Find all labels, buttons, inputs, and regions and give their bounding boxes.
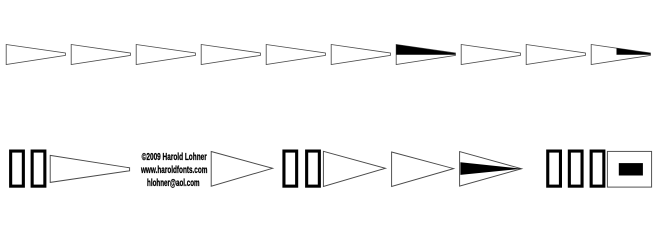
square flag with centered black rectangle <box>607 151 651 187</box>
pennant glyph 8 (outline wedge) <box>461 45 520 65</box>
pennant glyph 4 (outline wedge) <box>201 45 260 65</box>
svg-text:©2009 Harold Lohner: ©2009 Harold Lohner <box>142 152 207 163</box>
triangle flag T1 (outline) <box>211 152 272 187</box>
pennant glyph 5 (outline wedge) <box>266 45 325 65</box>
svg-text:hlohner@aol.com: hlohner@aol.com <box>147 178 200 189</box>
rectangle glyph F <box>568 150 584 188</box>
large pennant glyph <box>50 155 129 182</box>
pennant glyph 2 (outline wedge) <box>71 45 130 65</box>
pennant glyph 1 (outline wedge) <box>6 45 65 65</box>
triangle flag T2 (outline) <box>323 151 385 186</box>
rectangle glyph E <box>546 150 562 188</box>
pennant glyph 9 (outline wedge) <box>526 45 585 65</box>
rectangle glyph A <box>9 150 25 188</box>
pennant glyph 6 (outline wedge) <box>331 45 390 65</box>
rectangle glyph B <box>31 150 47 188</box>
pennant glyph 7 (wedge, top half black) <box>396 45 455 65</box>
rectangle glyph D <box>305 150 321 188</box>
arrow flag (triangle outline with black middle band) <box>460 152 522 187</box>
pennant glyph 10 (wedge, black right-top region) <box>591 45 650 65</box>
svg-text:www.haroldfonts.com: www.haroldfonts.com <box>140 165 207 176</box>
pennant glyph 3 (outline wedge) <box>136 45 195 65</box>
triangle flag T3 (outline) <box>392 152 454 187</box>
rectangle glyph G <box>590 150 606 188</box>
rectangle glyph C <box>282 150 298 188</box>
